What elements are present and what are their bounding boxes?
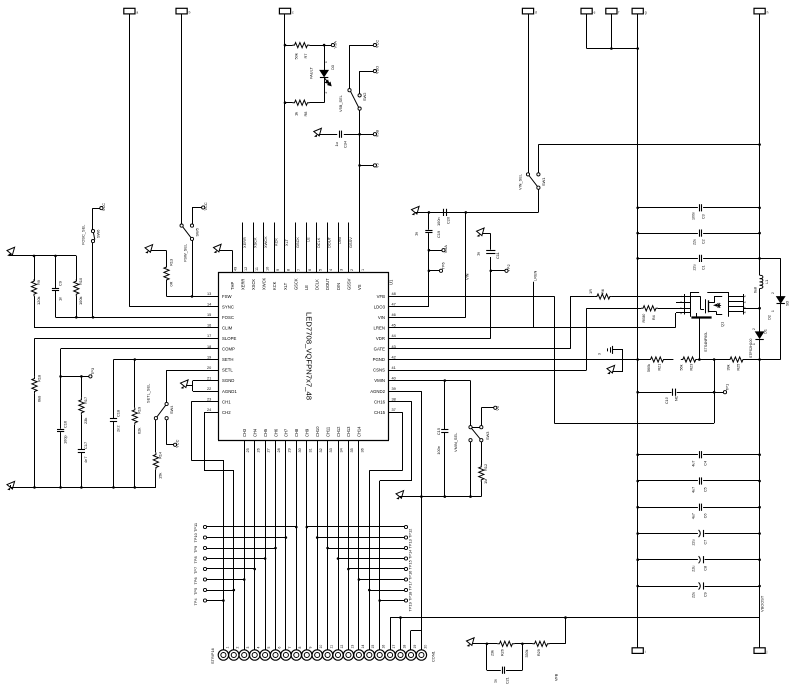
wire CH8 to connector pin 8 xyxy=(296,452,298,650)
wire CH4 to connector pin 4 xyxy=(254,452,256,650)
net stub KCK xyxy=(274,223,276,273)
svg-text:1M: 1M xyxy=(483,479,488,484)
svg-text:24: 24 xyxy=(207,408,211,412)
wire gnd row to RC network xyxy=(10,255,76,257)
off-page flag J2 (FSW select) xyxy=(176,8,187,14)
svg-text:AGND1: AGND1 xyxy=(222,389,237,394)
svg-text:LREN: LREN xyxy=(533,270,538,281)
svg-text:C19: C19 xyxy=(436,231,441,238)
ground arrow VDR xyxy=(483,233,491,235)
resistor R29 330k xyxy=(533,641,550,646)
svg-text:49: 49 xyxy=(234,267,238,271)
svg-text:R25: R25 xyxy=(737,364,741,371)
test point TP1 xyxy=(714,392,723,394)
resistor R4 R080 kelvin xyxy=(587,308,642,310)
svg-text:CON1: CON1 xyxy=(431,651,436,662)
diode D2 xyxy=(777,297,785,304)
wire GATE row riser xyxy=(401,348,570,350)
svg-text:28: 28 xyxy=(277,448,281,452)
svg-text:PGND: PGND xyxy=(373,357,385,362)
svg-text:TP6: TP6 xyxy=(193,577,198,584)
net stub LE xyxy=(306,223,308,273)
svg-text:1u: 1u xyxy=(414,232,419,236)
svg-text:R9: R9 xyxy=(36,280,41,285)
svg-text:STS4NF60L: STS4NF60L xyxy=(704,332,708,352)
node V5 circle xyxy=(360,165,374,167)
svg-text:3: 3 xyxy=(340,269,344,271)
svg-text:22: 22 xyxy=(207,387,211,391)
svg-text:1u: 1u xyxy=(476,252,481,256)
svg-text:SW2: SW2 xyxy=(362,93,367,101)
svg-text:20: 20 xyxy=(423,645,427,649)
wire VBOOST rail xyxy=(759,339,761,648)
svg-text:XLT: XLT xyxy=(283,282,288,290)
wire SW4 right contact to VCC xyxy=(166,420,168,445)
svg-text:R23: R23 xyxy=(690,364,694,371)
svg-text:C1: C1 xyxy=(702,265,706,270)
svg-text:100n: 100n xyxy=(436,217,441,226)
svg-text:38: 38 xyxy=(392,398,396,402)
svg-text:CH16: CH16 xyxy=(374,399,386,404)
resistor R13 0R on FSW xyxy=(145,245,153,254)
svg-text:C4: C4 xyxy=(704,461,708,466)
svg-text:SW5: SW5 xyxy=(195,228,200,236)
wire SW2 left contact to VCC xyxy=(349,45,351,89)
svg-text:TP3: TP3 xyxy=(90,368,95,375)
svg-text:SETL_SEL: SETL_SEL xyxy=(146,383,151,403)
svg-text:C9: C9 xyxy=(704,592,708,597)
wire CH6 to connector pin 6 xyxy=(275,452,277,650)
svg-text:18: 18 xyxy=(207,345,211,349)
svg-text:b: b xyxy=(189,10,191,14)
svg-text:15: 15 xyxy=(207,313,211,317)
capacitor C1 22u input xyxy=(638,258,698,260)
wire CH14 to connector pin 14 xyxy=(358,452,360,650)
resistor R26 23k xyxy=(514,643,522,645)
svg-text:SETH: SETH xyxy=(222,357,233,362)
svg-text:50k: 50k xyxy=(294,53,299,59)
svg-text:23: 23 xyxy=(207,398,211,402)
svg-text:1: 1 xyxy=(771,310,775,312)
svg-text:C11: C11 xyxy=(495,252,500,259)
off-page flag J8 (VIN rail) xyxy=(754,8,765,14)
svg-text:R21: R21 xyxy=(658,364,662,371)
test point TP8 xyxy=(203,557,206,560)
wire flag J4 down to SW1 xyxy=(528,14,530,173)
svg-text:V5: V5 xyxy=(375,163,380,168)
capacitor C15 100n on VMIN xyxy=(444,381,446,430)
svg-text:CH15: CH15 xyxy=(374,410,386,415)
svg-text:22u: 22u xyxy=(693,239,697,245)
svg-text:5: 5 xyxy=(318,269,322,271)
svg-text:48: 48 xyxy=(392,292,396,296)
svg-text:SGND: SGND xyxy=(222,378,234,383)
svg-text:VCC: VCC xyxy=(375,40,380,48)
svg-text:e: e xyxy=(594,10,596,14)
ground row left xyxy=(7,481,15,490)
svg-text:CH2: CH2 xyxy=(222,410,231,415)
resistor R23 56k xyxy=(681,357,698,362)
capacitor C3 100n input xyxy=(638,207,698,209)
svg-text:23k: 23k xyxy=(491,650,495,656)
U1 left pin stubs and labels xyxy=(206,296,218,298)
svg-text:2n2: 2n2 xyxy=(115,426,120,433)
svg-text:VMIN_SEL: VMIN_SEL xyxy=(453,432,458,452)
svg-text:330k: 330k xyxy=(525,649,529,657)
svg-text:22u: 22u xyxy=(692,566,696,572)
svg-text:g: g xyxy=(645,10,647,14)
svg-text:13: 13 xyxy=(207,292,211,296)
wire gnd flag bus xyxy=(587,48,638,50)
svg-text:CH3: CH3 xyxy=(242,428,247,437)
svg-text:FOSC: FOSC xyxy=(222,315,234,320)
svg-text:6u8: 6u8 xyxy=(753,287,757,293)
wire SW1 common down xyxy=(538,189,540,212)
svg-text:R12: R12 xyxy=(483,464,488,471)
svg-text:1u: 1u xyxy=(494,679,498,683)
svg-text:TP4: TP4 xyxy=(193,598,198,606)
node VDA circle xyxy=(429,250,442,252)
test point TP6 on LDO3 xyxy=(429,270,440,272)
test point TP2 on VDR xyxy=(491,270,505,272)
test point TP5 xyxy=(203,588,206,591)
net stub XSCK xyxy=(253,223,255,273)
svg-text:TP6: TP6 xyxy=(441,262,446,269)
wire CH5 to connector pin 5 xyxy=(265,452,267,650)
svg-text:FSW: FSW xyxy=(222,294,232,299)
wire VDR row xyxy=(401,338,491,340)
svg-text:C34: C34 xyxy=(343,140,348,148)
wire SW2 right contact to VDD xyxy=(359,71,361,94)
svg-text:10: 10 xyxy=(265,267,269,271)
capacitor C16 100p (COMP) xyxy=(60,376,62,428)
svg-text:NC: NC xyxy=(675,395,679,401)
svg-text:GSCK: GSCK xyxy=(293,278,298,290)
svg-text:SW3: SW3 xyxy=(485,432,490,440)
svg-text:TP17: TP17 xyxy=(408,581,413,590)
wire SW2 common down V5 net xyxy=(359,110,361,272)
diode D1 STPS2H100 xyxy=(755,332,763,339)
svg-text:TP5: TP5 xyxy=(193,588,198,595)
switch SW1 VIN_SEL xyxy=(526,173,529,176)
svg-text:R19: R19 xyxy=(137,407,142,414)
svg-text:29: 29 xyxy=(288,448,292,452)
svg-text:1: 1 xyxy=(324,61,328,63)
svg-text:VCC: VCC xyxy=(175,439,180,447)
svg-text:4u7: 4u7 xyxy=(692,513,696,519)
LED D3 FAULT xyxy=(324,45,326,70)
wire VMIN row xyxy=(401,380,471,382)
test point TP3 xyxy=(81,376,88,378)
wire VIN rail top section xyxy=(759,14,761,275)
switch SW3 VMIN_SEL xyxy=(470,381,472,426)
svg-text:C5: C5 xyxy=(704,487,708,492)
svg-text:d: d xyxy=(535,10,537,14)
svg-text:CH14: CH14 xyxy=(357,426,362,437)
capacitor C11 1u xyxy=(486,250,495,252)
resistor R8 1k xyxy=(285,102,293,104)
svg-text:CH7: CH7 xyxy=(284,428,289,437)
svg-text:V5A: V5A xyxy=(333,41,338,49)
svg-text:R080: R080 xyxy=(642,314,646,323)
svg-text:a: a xyxy=(136,10,138,14)
svg-text:12: 12 xyxy=(244,267,248,271)
svg-text:C21: C21 xyxy=(506,677,510,684)
svg-text:C7: C7 xyxy=(704,540,708,545)
svg-text:5: 5 xyxy=(267,647,271,649)
wire COMP branch to R17 xyxy=(61,376,82,378)
svg-text:25: 25 xyxy=(246,448,250,452)
svg-text:C2: C2 xyxy=(702,239,706,244)
switch SW5 FSW_SEL xyxy=(180,224,183,227)
svg-text:VDA: VDA xyxy=(443,245,448,253)
svg-text:SLOPE: SLOPE xyxy=(222,336,236,341)
switch SW4 SETL_SEL xyxy=(165,402,168,405)
svg-text:11: 11 xyxy=(330,645,334,649)
svg-text:26: 26 xyxy=(256,448,260,452)
svg-text:4: 4 xyxy=(257,647,261,649)
wire CH16 to connector pin 16 xyxy=(401,401,412,403)
wire CH10 to connector pin 10 xyxy=(317,452,319,650)
wire VIN to D2 branch xyxy=(760,258,781,260)
capacitor C21 1u across R26 xyxy=(486,644,488,670)
svg-text:TP18: TP18 xyxy=(408,592,413,601)
svg-text:27: 27 xyxy=(267,448,271,452)
svg-text:V5B: V5B xyxy=(375,129,380,137)
wire D2 to sense row xyxy=(780,304,782,360)
svg-text:TP7: TP7 xyxy=(193,567,198,574)
svg-text:VCC: VCC xyxy=(101,203,106,211)
svg-text:VIN: VIN xyxy=(378,315,385,320)
svg-text:R8: R8 xyxy=(303,112,308,117)
capacitor C6 4u7 output xyxy=(638,507,698,509)
wire CH2 to connector pin 2 xyxy=(204,412,206,414)
capacitor C4 4u7 output xyxy=(638,454,698,456)
svg-text:TP15: TP15 xyxy=(408,560,413,569)
svg-text:SYNC: SYNC xyxy=(222,304,234,309)
svg-text:VMIN: VMIN xyxy=(374,378,385,383)
svg-text:7: 7 xyxy=(297,269,301,271)
svg-text:1R: 1R xyxy=(588,289,593,294)
node VCC circle FOSC xyxy=(100,207,103,210)
svg-text:30: 30 xyxy=(298,448,302,452)
svg-text:17: 17 xyxy=(392,645,396,649)
U1 right pin stubs and labels xyxy=(389,296,401,298)
wire VIN pin riser xyxy=(401,317,466,319)
wire CH15 to connector pin 15 xyxy=(401,412,403,414)
svg-text:STRIP16: STRIP16 xyxy=(210,648,215,664)
svg-text:42: 42 xyxy=(392,355,396,359)
capacitor C2 22u input xyxy=(638,233,698,235)
svg-text:CH9: CH9 xyxy=(305,428,310,437)
switch SW2 V5B_SEL xyxy=(348,89,351,92)
svg-text:2: 2 xyxy=(350,269,354,271)
svg-text:TP13: TP13 xyxy=(408,539,413,548)
resistor R21 560k xyxy=(649,357,666,362)
svg-text:39: 39 xyxy=(392,387,396,391)
ground bar symbol on PGND xyxy=(612,346,614,354)
wire CH13 to connector pin 13 xyxy=(348,452,350,650)
svg-text:VFB: VFB xyxy=(377,294,385,299)
svg-text:TP14: TP14 xyxy=(408,549,413,559)
svg-text:46: 46 xyxy=(392,313,396,317)
svg-text:THP: THP xyxy=(230,282,235,290)
capacitor C8 22u output xyxy=(638,559,698,561)
off-page flag J6 (GND) xyxy=(606,8,617,14)
test point TP7 xyxy=(203,567,206,570)
resistor R17 23k xyxy=(81,376,83,397)
off-page flag J4 (VIN input) xyxy=(522,8,533,14)
ground row under VMIN select xyxy=(396,491,404,500)
svg-text:TP16: TP16 xyxy=(408,571,413,580)
off-page flag J5 (GND) xyxy=(581,8,592,14)
svg-text:23k: 23k xyxy=(83,418,88,424)
test point TP17 xyxy=(404,578,407,581)
svg-text:TP9: TP9 xyxy=(193,546,198,553)
svg-text:FAULT: FAULT xyxy=(309,67,314,79)
svg-text:L1: L1 xyxy=(764,280,769,284)
wire switch node xyxy=(759,289,761,332)
svg-text:4n7: 4n7 xyxy=(83,457,88,464)
svg-text:SETL: SETL xyxy=(222,368,233,373)
svg-text:22u: 22u xyxy=(693,264,697,270)
svg-text:21: 21 xyxy=(207,376,211,380)
test point TP16 xyxy=(404,567,407,570)
wire SW3 left lower contact to ground row xyxy=(470,442,472,497)
capacitor C20 100n xyxy=(443,209,445,216)
wire LDO3 row xyxy=(401,306,429,308)
ground arrow divider xyxy=(467,638,475,647)
net stub DCLK xyxy=(316,223,318,273)
svg-text:D2: D2 xyxy=(767,315,772,320)
U1 top pin stubs and labels xyxy=(232,260,234,272)
svg-text:DCLK: DCLK xyxy=(315,279,320,290)
svg-text:C6: C6 xyxy=(704,513,708,518)
svg-text:TP11: TP11 xyxy=(193,523,198,532)
svg-text:VIN_SEL: VIN_SEL xyxy=(518,173,523,190)
resistor R12 1M xyxy=(481,442,483,465)
wire SW6 common to FOSC row xyxy=(92,243,94,318)
svg-text:C18: C18 xyxy=(115,410,120,417)
wire FOSC row xyxy=(56,317,207,319)
svg-text:C3: C3 xyxy=(702,214,706,219)
svg-text:100n: 100n xyxy=(692,212,696,220)
svg-text:15: 15 xyxy=(371,645,375,649)
resistor R10 100k (FOSC) xyxy=(76,256,78,281)
off-page flag J1 (SYNC) xyxy=(124,8,135,14)
test point TP11 xyxy=(203,525,206,528)
svg-text:R13: R13 xyxy=(169,259,174,266)
wire VDD bypass row xyxy=(415,212,539,214)
svg-text:VDR: VDR xyxy=(376,336,385,341)
svg-text:FOSC_SEL: FOSC_SEL xyxy=(81,224,86,245)
node V5 circle VMIN xyxy=(494,406,497,409)
svg-text:9: 9 xyxy=(309,647,313,649)
svg-text:R10: R10 xyxy=(78,277,83,285)
wire XLT vertical junction dots xyxy=(284,44,287,47)
net stub GSCK xyxy=(295,223,297,273)
flag GND rail bottom xyxy=(632,648,643,654)
test point TP10 xyxy=(203,536,206,539)
svg-text:1k: 1k xyxy=(294,112,299,116)
svg-text:100k: 100k xyxy=(78,297,83,305)
test point TP19 xyxy=(404,599,407,602)
wire CH9 to connector pin 9 xyxy=(306,452,308,650)
svg-text:1n: 1n xyxy=(57,297,62,301)
svg-text:C17: C17 xyxy=(83,442,88,449)
connector CON1 strip xyxy=(218,650,228,660)
svg-text:36: 36 xyxy=(361,448,365,452)
ground THP pad xyxy=(232,250,234,272)
svg-text:R29: R29 xyxy=(537,649,541,656)
svg-text:XSCK: XSCK xyxy=(251,279,256,290)
capacitor C19 1u xyxy=(425,230,432,232)
svg-text:100n: 100n xyxy=(436,446,441,455)
svg-text:CH5: CH5 xyxy=(263,428,268,437)
U1 bottom pin stubs and labels xyxy=(244,440,246,452)
svg-text:62k: 62k xyxy=(137,428,142,434)
svg-text:GSSV: GSSV xyxy=(346,278,351,290)
svg-text:CH8: CH8 xyxy=(294,428,299,437)
svg-text:32: 32 xyxy=(319,448,323,452)
svg-text:R4: R4 xyxy=(652,315,656,320)
svg-text:DOUT: DOUT xyxy=(327,236,332,248)
svg-text:CH10: CH10 xyxy=(315,426,320,437)
wire VFB sense riser with C10 node xyxy=(714,360,716,424)
svg-text:DIN: DIN xyxy=(337,237,342,244)
svg-text:12: 12 xyxy=(340,645,344,649)
svg-text:560k: 560k xyxy=(647,364,651,372)
svg-text:6: 6 xyxy=(308,269,312,271)
svg-text:33: 33 xyxy=(329,448,333,452)
wire COMP row xyxy=(61,348,206,350)
svg-text:6k8: 6k8 xyxy=(36,396,41,402)
svg-text:AGND2: AGND2 xyxy=(370,389,385,394)
capacitor C10 NC xyxy=(638,392,672,394)
svg-text:R14: R14 xyxy=(158,451,163,459)
svg-text:VS: VS xyxy=(357,284,362,290)
svg-text:9: 9 xyxy=(276,269,280,271)
test point TP6 xyxy=(203,578,206,581)
wire divider riser xyxy=(565,618,567,644)
svg-text:Q1: Q1 xyxy=(720,322,725,327)
inductor L1 6u8 xyxy=(760,275,763,278)
resistor R14 15k xyxy=(155,420,157,453)
svg-text:TP2: TP2 xyxy=(506,264,511,271)
resistor R18 6k8 (SLOPE) xyxy=(35,338,207,340)
svg-text:1: 1 xyxy=(361,269,365,271)
svg-text:R7: R7 xyxy=(303,54,308,59)
ground arrow top left xyxy=(7,247,15,256)
svg-text:SW6: SW6 xyxy=(96,230,101,238)
wire CH3 to connector pin 3 xyxy=(244,452,246,650)
svg-text:TP8: TP8 xyxy=(193,556,198,563)
wire SW6 to VCC circle xyxy=(92,208,94,229)
svg-text:R26: R26 xyxy=(501,649,505,656)
svg-text:13: 13 xyxy=(350,645,354,649)
svg-text:17: 17 xyxy=(207,334,211,338)
svg-text:CH6: CH6 xyxy=(273,428,278,437)
wire SW1 right contact to VIN rail top xyxy=(538,145,540,173)
svg-text:14: 14 xyxy=(207,303,211,307)
svg-text:TP19: TP19 xyxy=(408,602,413,611)
svg-text:VFB: VFB xyxy=(555,673,559,681)
net stub DIN xyxy=(338,223,340,273)
test point TP13 xyxy=(404,536,407,539)
wire LREN row to Q1 source pin1 xyxy=(401,327,675,329)
svg-text:VIN: VIN xyxy=(464,273,469,280)
svg-text:GSCK: GSCK xyxy=(295,237,300,248)
